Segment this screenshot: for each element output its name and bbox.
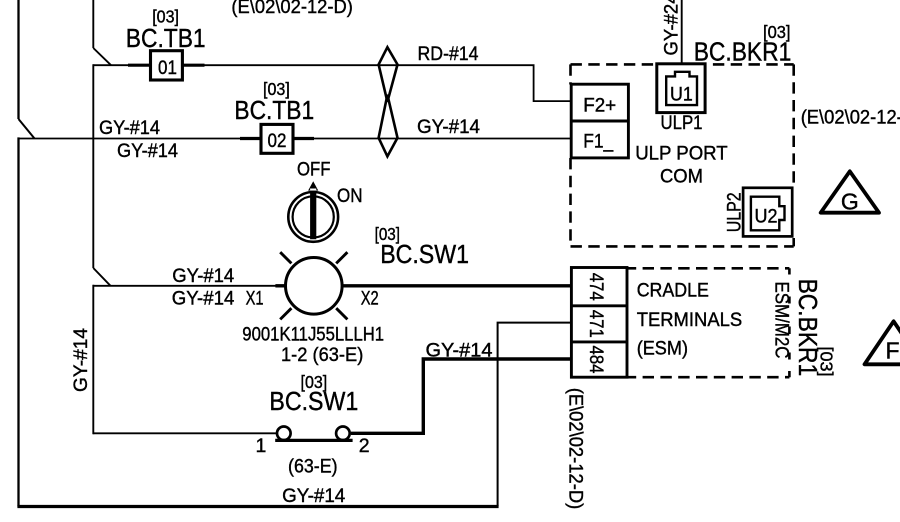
svg-text:471: 471 — [585, 310, 607, 338]
contact blade BC.SW1 — [275, 439, 352, 442]
terminal box 474/471/484 — [571, 268, 627, 378]
svg-text:GY-#14: GY-#14 — [99, 117, 160, 139]
wire chamfer diagonal into GY-#14 rung — [19, 119, 35, 139]
svg-text:F: F — [885, 338, 899, 364]
dashed enclosure right edge lower part — [792, 238, 795, 246]
svg-text:02: 02 — [268, 130, 287, 152]
connector U2 outer box — [743, 188, 792, 237]
wire GY-#24 drop into ULP1 — [681, 0, 683, 65]
divider line under 474 — [571, 304, 627, 307]
svg-text:TERMINALS: TERMINALS — [637, 309, 743, 331]
svg-text:F2+: F2+ — [583, 95, 616, 117]
twisted pair symbol lower kite — [379, 95, 398, 157]
divider line under 471 — [571, 340, 627, 343]
terminal box BC.TB1 02 — [261, 124, 293, 153]
wire GY-#14 rung right to F1 — [314, 138, 572, 140]
svg-text:OFF: OFF — [297, 159, 331, 181]
svg-text:ULP2: ULP2 — [723, 192, 745, 232]
svg-text:ULP PORT: ULP PORT — [635, 143, 728, 165]
wire chamfer diagonal into coil rung — [93, 268, 110, 286]
pilot light circle BC.SW1 — [286, 258, 343, 315]
svg-text:U2: U2 — [755, 205, 778, 227]
svg-text:474: 474 — [585, 273, 607, 301]
wire mid bus vertical middle segment — [92, 64, 94, 268]
selector switch operator inner circle — [293, 196, 334, 237]
wire bottom GY-#14 run — [17, 505, 498, 508]
terminal box BC.TB1 01 — [151, 51, 183, 80]
pilot light ray lower-left — [280, 308, 291, 319]
dashed enclosure CRADLE right edge dash pieces — [788, 268, 791, 377]
dashed enclosure left edge upper part — [569, 64, 572, 84]
wire GY-#14 rung to BC.TB1 02 — [19, 138, 242, 140]
svg-text:1-2 (63-E): 1-2 (63-E) — [281, 344, 363, 366]
pilot light ray lower-right — [336, 308, 347, 319]
dashed enclosure CRADLE TERMINALS top edge — [571, 267, 789, 270]
selector switch operator outer circle — [288, 192, 338, 242]
dashed enclosure left edge lower part — [569, 158, 572, 246]
wire left bus vertical main segment — [17, 137, 19, 506]
terminal stub left of BC.TB1 01 — [128, 64, 151, 67]
contact terminal circle 2 — [336, 427, 350, 441]
svg-text:[03]: [03] — [263, 79, 290, 99]
svg-text:(E\02\02-12-D): (E\02\02-12-D) — [801, 107, 900, 129]
connector U1 outer box — [657, 64, 705, 113]
svg-text:GY-#14: GY-#14 — [117, 140, 178, 162]
svg-text:GY-#14: GY-#14 — [282, 485, 345, 507]
selector switch handle bar with arrow — [308, 181, 318, 239]
wire 471 terminal to bottom run — [498, 323, 572, 506]
dashed enclosure right edge upper part — [792, 64, 795, 186]
wire RD-#14 rung right, down to F2+ — [204, 65, 572, 101]
svg-text:BC.SW1: BC.SW1 — [269, 388, 358, 416]
wire RD-#14 rung left — [93, 64, 129, 66]
svg-text:ESM/M2C: ESM/M2C — [771, 282, 793, 359]
svg-text:484: 484 — [585, 346, 607, 374]
wire mid bus vertical top segment — [92, 0, 94, 48]
triangle reference G — [821, 171, 879, 212]
svg-text:COM: COM — [660, 165, 703, 187]
wire mid bus vertical lower segment — [92, 285, 94, 434]
wire left bus vertical top segment — [17, 0, 19, 119]
wire 484 terminal down to contact — [351, 359, 572, 433]
terminal stub left of BC.TB1 02 — [240, 137, 262, 140]
twisted pair symbol upper kite — [379, 47, 398, 102]
connector U1 inner socket — [666, 72, 697, 105]
svg-text:F1_: F1_ — [583, 130, 614, 152]
svg-text:GY-#14: GY-#14 — [417, 116, 480, 138]
svg-text:GY-#24: GY-#24 — [660, 0, 682, 56]
svg-text:X2: X2 — [361, 287, 379, 309]
svg-text:BC.TB1: BC.TB1 — [234, 97, 314, 125]
svg-text:U1: U1 — [670, 84, 693, 106]
svg-text:BC.SW1: BC.SW1 — [380, 241, 469, 269]
terminal box F2+/F1 — [571, 84, 628, 158]
terminal stub X1 — [275, 284, 285, 287]
svg-text:GY-#14: GY-#14 — [172, 265, 234, 287]
svg-text:X1: X1 — [246, 287, 264, 309]
svg-text:G: G — [841, 189, 859, 215]
svg-text:BC.TB1: BC.TB1 — [126, 25, 206, 53]
svg-text:(63-E): (63-E) — [288, 455, 338, 477]
svg-text:(E\02\02-12-D): (E\02\02-12-D) — [565, 388, 587, 510]
svg-text:01: 01 — [158, 57, 177, 79]
svg-text:GY-#14: GY-#14 — [70, 328, 92, 392]
svg-text:GY-#14: GY-#14 — [172, 287, 235, 309]
svg-text:BC.BKR1: BC.BKR1 — [694, 38, 792, 66]
wire chamfer diagonal into RD-#14 rung — [93, 48, 111, 65]
triangle reference F — [865, 321, 900, 364]
svg-text:BC.BKR1: BC.BKR1 — [793, 279, 821, 377]
wire thick X2 to 474 terminal — [343, 284, 573, 287]
svg-text:(E\02\02-12-D): (E\02\02-12-D) — [231, 0, 353, 18]
contact terminal circle 1 — [277, 427, 291, 441]
svg-text:GY-#14: GY-#14 — [426, 340, 493, 362]
svg-text:RD-#14: RD-#14 — [418, 43, 479, 65]
connector U2 inner socket — [751, 197, 785, 231]
wire coil rung thin left part — [93, 285, 276, 287]
dashed enclosure BC.BKR1 ULP PORT COM top edge — [571, 63, 794, 66]
wire contact rung thin left part — [93, 432, 277, 434]
dashed enclosure bottom edge — [571, 245, 794, 248]
pilot light ray upper-right — [336, 252, 347, 263]
svg-text:ULP1: ULP1 — [661, 112, 703, 134]
dashed enclosure CRADLE bottom edge — [571, 376, 789, 379]
svg-text:(ESM): (ESM) — [637, 337, 688, 359]
svg-text:1: 1 — [256, 435, 267, 457]
terminal stub right of BC.TB1 02 — [293, 137, 314, 140]
svg-text:[03]: [03] — [817, 347, 837, 377]
svg-text:ON: ON — [337, 185, 363, 207]
pilot light ray upper-left — [280, 252, 291, 263]
svg-text:[03]: [03] — [152, 7, 179, 27]
divider line F box — [571, 120, 628, 123]
svg-text:9001K11J55LLLH1: 9001K11J55LLLH1 — [242, 324, 384, 346]
terminal stub right of BC.TB1 01 — [182, 64, 205, 67]
svg-text:CRADLE: CRADLE — [637, 280, 709, 302]
svg-text:2: 2 — [359, 435, 370, 457]
